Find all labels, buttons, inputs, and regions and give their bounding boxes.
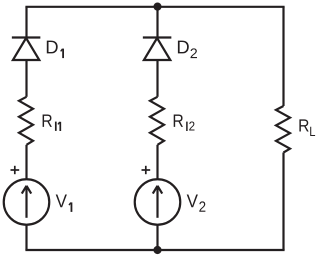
voltage source V2 [135,179,181,225]
junction node bottom [153,246,161,254]
wire bottom rail [27,249,284,251]
label Rl1 [43,114,52,126]
wire V1 to bottom rail [25,225,27,250]
resistor Rl2 [150,97,164,145]
junction node top [153,3,161,11]
subscript 1 of V1 [69,202,71,212]
plus polarity mark of V1 [11,166,20,174]
resistor RL [276,106,290,153]
plus polarity mark of V2 [142,166,151,174]
diode D2 [143,38,172,61]
wire V2 to bottom rail [156,225,158,250]
label V1 [56,195,67,208]
wire RL to bottom rail [282,153,284,251]
label D2 [178,41,197,58]
subscript 1 of D1 [61,49,63,59]
subscript l of Rl2 [186,122,188,131]
diode D1 [12,38,40,61]
subscript l1 of Rl1 [56,122,61,131]
wire D2 to Rl2 [156,60,158,97]
wire left branch: top rail to D1 [25,7,27,39]
label V2 [187,195,206,212]
wire D1 to Rl1 [25,60,27,97]
label Rl2 [174,114,195,130]
wire Rl1 to V1 [25,145,27,180]
label RL [299,119,315,136]
voltage source V1 [4,179,50,225]
wire top rail [27,6,284,8]
wire Rl2 to V2 [156,145,158,180]
wire middle branch: top rail to D2 [156,7,158,39]
label D1 [47,41,58,54]
resistor Rl1 [19,97,33,145]
wire right branch: top rail to RL [282,7,284,106]
